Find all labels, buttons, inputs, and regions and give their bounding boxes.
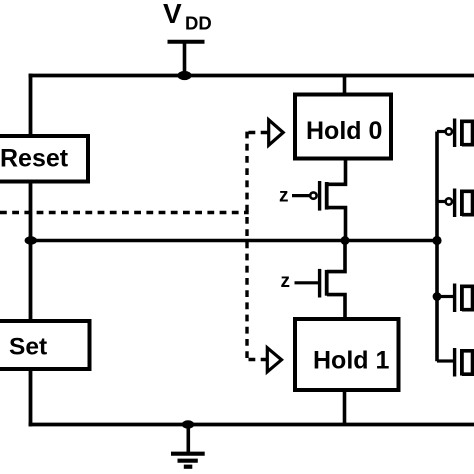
svg-text:z: z <box>281 271 291 292</box>
dashed clock net vertical <box>245 132 248 358</box>
wire left vertical middle <box>29 181 33 321</box>
ground <box>171 425 205 467</box>
transistor Q3 gate wire <box>437 295 453 298</box>
wire left vertical lower <box>29 369 33 426</box>
transistor M2 source wire to Hold 1 <box>327 295 345 319</box>
svg-text:z: z <box>279 186 289 207</box>
transistor Q2 gate wire <box>437 200 445 203</box>
transistor Q4 gate wire <box>437 359 453 362</box>
transistor M2 drain wire from mid rail <box>327 241 345 272</box>
transistor M2 NMOS z-gated <box>295 269 327 298</box>
svg-text:V: V <box>163 0 182 29</box>
wire Hold 1 to bottom rail <box>343 390 347 425</box>
transistor Q3 NMOS right third <box>455 284 473 313</box>
junction ground on bottom rail <box>182 420 194 428</box>
block Reset <box>0 136 88 182</box>
svg-text:Hold 0: Hold 0 <box>306 117 382 145</box>
transistor M1 drain wire from Hold 0 <box>327 161 346 185</box>
wire middle rail <box>31 239 438 243</box>
transistor Q1 PMOS right top <box>446 119 473 148</box>
wire bottom ground rail <box>29 423 474 427</box>
wire left vertical upper <box>29 74 33 137</box>
block Set <box>0 321 90 369</box>
block Hold 1 <box>295 319 399 390</box>
transistor Q1 gate wire <box>437 130 445 133</box>
dashed stub into buffer 1 <box>249 131 269 134</box>
svg-text:Set: Set <box>9 334 47 361</box>
wire top VDD rail <box>29 74 474 78</box>
wire gate bus vertical right <box>435 132 439 362</box>
dashed stub into buffer 2 <box>249 358 267 361</box>
svg-text:Hold 1: Hold 1 <box>313 347 389 375</box>
transistor M1 PMOS z-gated <box>292 181 327 211</box>
transistor M1 source wire to mid rail <box>327 208 346 241</box>
junction gate bus on mid rail <box>432 236 441 245</box>
svg-text:Reset: Reset <box>0 145 69 173</box>
label VDD <box>163 0 212 34</box>
junction VDD on top rail <box>177 71 191 80</box>
power supply VDD tap <box>168 42 205 76</box>
transistor Q2 PMOS right second <box>446 189 473 218</box>
transistor Q4 NMOS right bottom <box>455 348 473 377</box>
buffer triangle 1 <box>269 120 284 145</box>
junction mid rail center <box>341 236 350 245</box>
junction gate bus Q3 <box>433 292 442 301</box>
block Hold 0 <box>295 95 391 159</box>
wire top rail to Hold 0 <box>343 76 347 95</box>
buffer triangle 2 <box>267 348 281 372</box>
junction left on mid rail <box>25 236 37 244</box>
svg-text:DD: DD <box>185 13 212 34</box>
dashed clock net horizontal <box>0 211 249 214</box>
